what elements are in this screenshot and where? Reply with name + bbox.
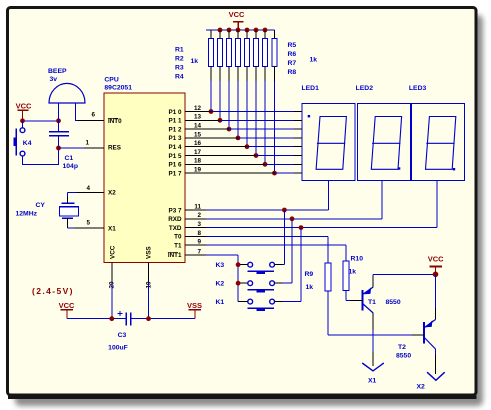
wire K2 right — [275, 282, 283, 284]
svg-text:104p: 104p — [63, 163, 79, 170]
junction VCC/T1/T2 — [433, 272, 439, 278]
svg-text:T0: T0 — [174, 234, 182, 241]
junction resistor R7 to P1.6 — [263, 162, 268, 167]
svg-text:CY: CY — [36, 202, 46, 209]
pin 5 stub (X1) — [74, 227, 104, 229]
resistor R10 — [343, 261, 349, 291]
svg-text:P1 2: P1 2 — [169, 126, 182, 133]
wire P1.7 to LED1 — [275, 172, 295, 174]
svg-text:VCC: VCC — [59, 301, 75, 310]
pin 3 stub — [185, 227, 206, 229]
svg-text:R3: R3 — [175, 65, 184, 72]
wire T1 base stub — [350, 300, 363, 302]
svg-text:P1 0: P1 0 — [169, 109, 182, 116]
svg-text:12: 12 — [194, 105, 202, 112]
svg-text:VCC: VCC — [428, 255, 444, 264]
7-segment display LED3 — [412, 104, 465, 181]
pin 18 stub (P1.6) — [185, 163, 265, 165]
svg-text:13: 13 — [194, 114, 202, 121]
pin 8 stub — [185, 235, 206, 237]
svg-text:LED1: LED1 — [302, 85, 320, 92]
wire T2 base stub — [412, 334, 424, 336]
svg-text:100uF: 100uF — [108, 345, 128, 352]
svg-text:12MHz: 12MHz — [16, 211, 38, 218]
capacitor C1 — [58, 121, 60, 131]
svg-text:BEEP: BEEP — [48, 68, 67, 75]
junction resistor R1 to P1.0 — [209, 109, 214, 114]
LED1 decimal dot — [308, 115, 310, 117]
junction on VCC rail — [245, 28, 250, 33]
junction TXD/K1 — [299, 225, 304, 230]
svg-text:C1: C1 — [65, 155, 74, 162]
svg-text:LED3: LED3 — [409, 85, 427, 92]
svg-text:VCC: VCC — [229, 10, 245, 19]
svg-text:INT1: INT1 — [168, 252, 182, 259]
svg-text:19: 19 — [194, 167, 202, 174]
junction VCC/K4 — [20, 118, 25, 123]
svg-text:3v: 3v — [50, 76, 58, 83]
resistor R3 body — [228, 30, 230, 38]
svg-text:4: 4 — [86, 185, 90, 192]
svg-text:K3: K3 — [216, 262, 225, 269]
wire K4 bottom loop — [23, 148, 59, 165]
junction on VCC rail — [263, 28, 268, 33]
pin 20 stub (VCC) — [111, 263, 113, 283]
wire K1 column — [300, 228, 302, 302]
resistor R1 body — [210, 30, 212, 38]
svg-text:T1: T1 — [174, 243, 182, 250]
svg-text:T1: T1 — [368, 299, 376, 306]
wire K2 column — [291, 219, 293, 283]
svg-text:8550: 8550 — [396, 352, 411, 359]
svg-text:P1 4: P1 4 — [169, 144, 182, 151]
wire P1.6 to LED1 — [265, 163, 294, 165]
junction on VCC rail — [218, 28, 223, 33]
svg-text:R1: R1 — [175, 47, 184, 54]
svg-text:TXD: TXD — [169, 225, 182, 232]
junction RXD/K2 — [290, 216, 295, 221]
svg-text:VCC: VCC — [16, 102, 32, 111]
svg-text:LED2: LED2 — [356, 85, 374, 92]
svg-text:K4: K4 — [23, 140, 32, 147]
resistor R5 body — [246, 30, 248, 38]
wire P1.1 to LED1 — [220, 119, 294, 121]
frame bottom edge — [8, 396, 477, 400]
junction resistor R6 to P1.5 — [254, 153, 259, 158]
wire T1 net — [206, 244, 346, 246]
connector X1 arrow — [362, 363, 384, 371]
svg-text:5: 5 — [86, 220, 90, 227]
svg-text:CPU: CPU — [104, 77, 118, 84]
pin 17 stub (P1.5) — [185, 155, 256, 157]
resistor R6 body — [255, 30, 257, 38]
pin 19 stub (P1.7) — [185, 172, 275, 174]
svg-text:R9: R9 — [305, 271, 314, 278]
crystal CY — [62, 202, 75, 204]
svg-text:R4: R4 — [175, 74, 184, 81]
wire VCC to T2 emitter — [435, 274, 437, 308]
wire RXD net — [206, 218, 382, 220]
wire VCC to beeper node — [23, 120, 59, 122]
svg-text:15: 15 — [194, 131, 202, 138]
svg-text:X2: X2 — [417, 384, 426, 391]
junction C1/RES/K4 — [56, 146, 61, 151]
junction resistor R3 to P1.2 — [227, 127, 232, 132]
svg-text:RES: RES — [108, 145, 121, 152]
svg-text:RXD: RXD — [168, 216, 182, 223]
resistor R8 body — [274, 30, 276, 38]
svg-text:17: 17 — [194, 149, 202, 156]
junction beeper/C1 node — [56, 118, 61, 123]
wire INT1 net — [206, 254, 238, 256]
wire crystal to X1 — [66, 218, 68, 228]
wire K1 right — [275, 301, 283, 303]
pin 6 stub (INT0) — [77, 120, 104, 122]
svg-text:P1 5: P1 5 — [169, 153, 182, 160]
svg-text:C3: C3 — [118, 332, 127, 339]
7-segment display LED1 — [302, 104, 355, 181]
svg-text:8550: 8550 — [386, 299, 401, 306]
svg-text:3: 3 — [197, 221, 201, 228]
svg-text:X2: X2 — [108, 190, 116, 197]
svg-text:K1: K1 — [216, 299, 225, 306]
junction resistor R5 to P1.4 — [245, 144, 250, 149]
wire beeper left leg — [58, 103, 60, 121]
svg-text:P1 6: P1 6 — [169, 162, 182, 169]
svg-text:R5: R5 — [288, 42, 297, 49]
svg-text:R10: R10 — [351, 256, 364, 263]
svg-text:P1 3: P1 3 — [169, 135, 182, 142]
wire P3.7 net — [206, 209, 329, 211]
svg-text:P1 1: P1 1 — [169, 118, 182, 125]
pin 11 stub — [185, 209, 206, 211]
pin 10 stub (VSS) — [148, 263, 150, 283]
svg-text:R7: R7 — [288, 60, 297, 67]
buzzer BEEP dome — [49, 83, 85, 103]
svg-text:R6: R6 — [288, 51, 297, 58]
svg-text:K2: K2 — [216, 281, 225, 288]
svg-text:1k: 1k — [306, 284, 314, 291]
svg-text:14: 14 — [194, 123, 202, 130]
transistor T2 — [423, 322, 425, 344]
LED3 decimal dot — [453, 168, 455, 170]
svg-text:(2.4-5V): (2.4-5V) — [32, 286, 74, 296]
pin 15 stub (P1.3) — [185, 137, 238, 139]
capacitor C3 — [125, 312, 127, 325]
pin 9 stub — [185, 244, 206, 246]
pushbutton K3 — [248, 262, 253, 267]
junction on VCC rail — [254, 28, 259, 33]
wire K3 left — [238, 264, 248, 266]
CPU U1 89C2051 body — [104, 93, 185, 263]
pin 7 stub — [185, 254, 206, 256]
resistor R4 body — [237, 30, 239, 38]
connector X2 arrow — [427, 372, 445, 380]
wire R9 to T2 base — [327, 291, 329, 335]
resistor R7 body — [264, 30, 266, 38]
junction K3 left — [236, 262, 241, 267]
transistor T1 — [362, 290, 364, 311]
junction pin10/rail — [146, 316, 151, 321]
pushbutton K4 — [20, 128, 25, 133]
wire VCC rail — [206, 29, 275, 31]
pushbutton K2 — [248, 281, 253, 286]
svg-text:7: 7 — [197, 248, 201, 255]
pin 16 stub (P1.4) — [185, 146, 247, 148]
pin 1 stub (RES) — [84, 147, 104, 149]
pin 13 stub (P1.1) — [185, 119, 220, 121]
svg-text:P1 7: P1 7 — [169, 170, 182, 177]
wire beeper right leg to INT0 — [75, 103, 77, 121]
wire K2 left — [238, 282, 248, 284]
junction resistor R4 to P1.3 — [236, 136, 241, 141]
wire P1.2 to LED1 — [229, 128, 294, 130]
wire T1 collector to X1 — [372, 313, 374, 330]
svg-text:6: 6 — [91, 111, 95, 118]
LED2 decimal dot — [398, 167, 400, 169]
svg-text:11: 11 — [194, 203, 201, 210]
svg-text:T2: T2 — [398, 344, 406, 351]
wire K4 top — [22, 121, 24, 128]
wire K1 left — [238, 301, 248, 303]
resistor R2 body — [219, 30, 221, 38]
junction resistor R8 to P1.7 — [272, 171, 277, 176]
svg-text:INT0: INT0 — [108, 118, 122, 125]
junction pin20/rail — [109, 316, 114, 321]
wire rail right — [131, 318, 195, 320]
junction P3.7/K3 — [282, 208, 287, 213]
pin 14 stub (P1.2) — [185, 128, 229, 130]
wire pin20 to rail — [111, 282, 113, 319]
svg-text:R2: R2 — [175, 56, 184, 63]
junction on VCC rail — [236, 28, 241, 33]
svg-text:89C2051: 89C2051 — [104, 85, 132, 92]
junction resistor R2 to P1.1 — [218, 118, 223, 123]
pin 2 stub — [185, 218, 206, 220]
resistor R9 — [325, 263, 331, 291]
svg-text:1k: 1k — [191, 58, 199, 65]
junction on VCC rail — [227, 28, 232, 33]
svg-text:X1: X1 — [368, 378, 377, 385]
svg-text:VSS: VSS — [187, 301, 202, 310]
svg-text:R8: R8 — [288, 69, 297, 76]
pushbutton K1 — [248, 299, 253, 304]
pin 12 stub (P1.0) — [185, 111, 211, 113]
pin 4 stub (X2) — [76, 191, 104, 193]
wire P1.3 to LED1 — [238, 137, 294, 139]
7-segment display LED2 — [357, 104, 410, 181]
wire T2 collector to X2 — [435, 349, 437, 355]
wire K3 right — [275, 264, 283, 266]
wire TXD net — [206, 227, 437, 229]
svg-text:16: 16 — [194, 140, 202, 147]
wire rail left — [67, 318, 126, 320]
wire R10 to T1 base — [345, 291, 347, 301]
svg-text:8: 8 — [197, 230, 201, 237]
svg-text:1k: 1k — [349, 269, 357, 276]
wire P1.0 to LED1 — [211, 111, 294, 113]
wire P1.4 to LED1 — [247, 146, 294, 148]
svg-text:VSS: VSS — [145, 246, 152, 259]
wire T0 net — [206, 235, 328, 237]
wire pin10 to rail — [148, 282, 150, 319]
svg-text:2: 2 — [197, 212, 201, 219]
svg-text:1: 1 — [85, 139, 89, 146]
svg-text:X1: X1 — [108, 225, 116, 232]
wire K3 column — [283, 210, 285, 265]
svg-text:1k: 1k — [310, 57, 318, 64]
wire RES node — [59, 147, 85, 149]
svg-text:P3 7: P3 7 — [169, 207, 182, 214]
junction K2 left — [236, 281, 241, 286]
wire X2 to crystal — [67, 191, 76, 193]
svg-text:VCC: VCC — [110, 245, 117, 259]
svg-text:9: 9 — [197, 239, 201, 246]
svg-text:18: 18 — [194, 158, 202, 165]
wire P1.5 to LED1 — [256, 155, 294, 157]
wire T1 emitter to VCC — [372, 276, 374, 287]
